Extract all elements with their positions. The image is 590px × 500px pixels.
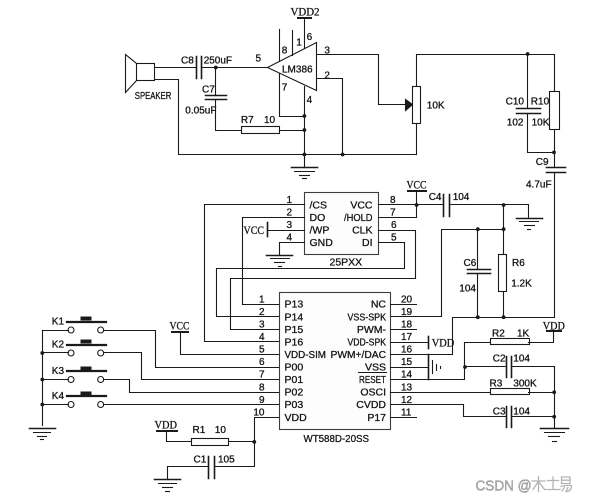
svg-text:VDD: VDD: [155, 419, 178, 431]
svg-text:13: 13: [401, 382, 413, 393]
ground G7 sideways: [429, 355, 441, 380]
op-amp U2 LM386 triangle: [268, 43, 317, 91]
node R6 top: [502, 227, 506, 231]
svg-text:R2: R2: [492, 329, 505, 340]
svg-text:R6: R6: [512, 258, 525, 269]
wire K2 right to P01: [104, 353, 279, 380]
wire pot bottom: [416, 124, 418, 155]
svg-text:K1: K1: [52, 317, 65, 328]
svg-text:P14: P14: [285, 311, 304, 323]
button K3: [67, 367, 106, 383]
svg-text:4: 4: [259, 332, 265, 343]
svg-text:8: 8: [282, 46, 288, 57]
svg-text:104: 104: [453, 192, 470, 203]
pot wiper arrow: [406, 100, 413, 111]
wire PWM+ net: [453, 318, 555, 355]
svg-text:16: 16: [401, 345, 413, 356]
svg-text:5: 5: [256, 54, 262, 65]
pin 6 wire from VDD2: [304, 19, 306, 49]
ground G4: [155, 480, 181, 492]
svg-text:7: 7: [282, 83, 288, 94]
wire 25PXX pin4 GND: [280, 243, 305, 255]
resistor R1: [192, 439, 229, 446]
node R6 bottom: [502, 315, 506, 319]
wire pot top: [417, 55, 555, 87]
svg-text:3: 3: [259, 319, 265, 330]
node RESET/R2/C2: [463, 365, 467, 369]
svg-text:15: 15: [401, 357, 413, 368]
svg-text:3: 3: [286, 220, 292, 231]
wire 25PXX pin1 /CS to P16: [205, 205, 305, 342]
svg-text:C9: C9: [536, 157, 549, 168]
svg-text:6: 6: [307, 32, 313, 43]
svg-text:10: 10: [215, 425, 227, 436]
watermark glyph shi: [546, 477, 560, 490]
svg-text:250uF: 250uF: [204, 56, 232, 67]
svg-text:104: 104: [513, 407, 530, 418]
svg-text:R3: R3: [490, 379, 503, 390]
svg-text:C8: C8: [181, 56, 194, 67]
wire K2 left: [43, 352, 69, 354]
svg-text:P15: P15: [285, 324, 304, 336]
svg-text:P16: P16: [285, 336, 304, 348]
svg-text:C2: C2: [493, 354, 506, 365]
svg-text:CVDD: CVDD: [356, 399, 386, 411]
node C9 top junction: [552, 151, 556, 155]
svg-text:RESET: RESET: [359, 374, 386, 386]
svg-text:4: 4: [307, 95, 313, 106]
wire junction down to C1: [215, 442, 255, 467]
capacitor C2: [465, 357, 555, 378]
capacitor C3: [507, 407, 555, 428]
svg-text:19: 19: [401, 307, 413, 318]
svg-text:1.2K: 1.2K: [511, 279, 532, 290]
svg-text:R10: R10: [531, 97, 550, 108]
watermark glyph yi: [561, 477, 572, 492]
wire C7 to R7: [216, 100, 242, 131]
svg-text:SPEAKER: SPEAKER: [135, 91, 172, 102]
pin 1 stub: [292, 31, 294, 56]
svg-text:8: 8: [390, 195, 396, 206]
wire K4 left: [43, 404, 69, 406]
wire K1 left: [43, 330, 69, 332]
VCC power bar mid: [172, 331, 188, 333]
capacitor C8: [197, 57, 202, 79]
svg-text:10: 10: [253, 407, 265, 418]
node C6 top: [476, 227, 480, 231]
IC U3 25PXX body: [305, 193, 379, 255]
svg-text:WT588D-20SS: WT588D-20SS: [304, 433, 370, 445]
wire pin20 NC stub: [391, 304, 417, 306]
capacitor C6: [468, 230, 491, 318]
node R1/C1 junction: [252, 440, 256, 444]
svg-text:17: 17: [401, 332, 413, 343]
svg-text:VCC: VCC: [350, 200, 373, 212]
node C3 right: [552, 415, 556, 419]
svg-text:5: 5: [391, 233, 397, 244]
svg-text:VDD: VDD: [543, 321, 565, 333]
resistor R6: [499, 230, 507, 318]
svg-text:4.7uF: 4.7uF: [526, 180, 552, 191]
wire pin2 to bottom wire: [317, 79, 343, 155]
wire pin3 output to pot wiper: [317, 55, 405, 105]
svg-text:CLK: CLK: [352, 225, 372, 237]
svg-text:10K: 10K: [427, 101, 445, 112]
IC U1 WT588D-20SS body: [280, 293, 391, 430]
wire pin12 CVDD to C3: [391, 405, 507, 417]
svg-text:C1: C1: [194, 455, 207, 466]
wire 25PXX pin6 CLK to P15: [231, 231, 416, 330]
svg-text:18: 18: [401, 319, 413, 330]
svg-text:DO: DO: [310, 212, 326, 224]
wire C1 left to ground: [168, 467, 209, 479]
svg-text:10K: 10K: [532, 118, 550, 129]
svg-text:P13: P13: [285, 299, 304, 311]
capacitor C4: [444, 195, 450, 217]
ground G3: [30, 429, 56, 440]
node C4 net branch: [502, 203, 506, 207]
svg-text:12: 12: [401, 395, 413, 406]
svg-text:VCC: VCC: [170, 321, 190, 333]
svg-text:9: 9: [259, 395, 265, 406]
wire pin16 PWM+/DAC: [391, 354, 453, 356]
resistor R7: [242, 127, 280, 134]
svg-text:OSCI: OSCI: [360, 387, 386, 399]
svg-text:2: 2: [286, 208, 292, 219]
svg-text:/HOLD: /HOLD: [344, 212, 373, 224]
node rail K4: [40, 403, 44, 407]
wire pin11 P17 stub: [391, 417, 417, 419]
wire K4 right to P03: [104, 404, 279, 406]
speaker LS1 symbol: [126, 55, 155, 93]
svg-text:VSS: VSS: [365, 362, 386, 374]
VCC power symbol top: [408, 191, 426, 205]
wire C8 to LM386 pin5: [202, 67, 268, 69]
capacitor C1: [209, 457, 215, 479]
svg-text:C4: C4: [429, 192, 442, 203]
ground G1: [292, 155, 318, 179]
wire pin13 OSCI to R3: [391, 392, 491, 394]
wire R1 right to VDD pin10: [229, 418, 279, 442]
svg-text:11: 11: [401, 407, 412, 418]
wire pin7 /HOLD tie to VCC: [379, 205, 417, 218]
node rail K2: [40, 351, 44, 355]
wire 25PXX pin2 DO to P13: [243, 218, 305, 305]
VDD power bar right: [547, 330, 561, 332]
pin 7 wire: [280, 74, 305, 117]
svg-text:P01: P01: [285, 374, 304, 386]
wire K1 right to P00: [104, 331, 279, 368]
svg-text:104: 104: [513, 354, 530, 365]
RESET overline: [359, 372, 387, 374]
node pin2 on bottom wire: [341, 153, 345, 157]
svg-text:2: 2: [324, 71, 330, 82]
svg-text:1: 1: [259, 294, 265, 305]
node R7/pin4: [303, 128, 307, 132]
node ground junction on bottom wire: [303, 153, 307, 157]
svg-text:6: 6: [391, 220, 397, 231]
wire 25PXX pin8 VCC to C4: [379, 204, 444, 206]
svg-text:/WP: /WP: [310, 225, 330, 237]
resistor R10: [550, 55, 560, 153]
svg-text:VDD: VDD: [285, 412, 308, 424]
resistor R3: [491, 389, 555, 395]
node C8/C7 junction: [214, 66, 218, 70]
wire to C10: [527, 55, 529, 109]
svg-text:4: 4: [286, 233, 292, 244]
svg-text:/CS: /CS: [310, 200, 328, 212]
svg-text:C10: C10: [506, 97, 525, 108]
svg-text:VDD2: VDD2: [291, 7, 320, 19]
wire K3 left: [43, 379, 69, 381]
svg-text:C6: C6: [464, 258, 477, 269]
svg-text:P00: P00: [285, 362, 304, 374]
wire C9 bottom down to PWM+ net: [554, 173, 556, 318]
capacitor C9: [547, 153, 566, 173]
node C10 top: [526, 52, 530, 56]
ground G2: [267, 256, 293, 267]
svg-text:102: 102: [507, 118, 524, 129]
svg-text:PWM+/DAC: PWM+/DAC: [331, 349, 387, 361]
wire speaker top to C8: [155, 67, 197, 69]
svg-text:VCC: VCC: [407, 180, 427, 192]
svg-text:7: 7: [259, 370, 265, 381]
button K4: [67, 392, 106, 408]
wire C10 bottom: [528, 114, 555, 153]
svg-text:2: 2: [259, 307, 265, 318]
watermark glyph mu: [532, 477, 545, 492]
svg-text:300K: 300K: [513, 379, 537, 390]
pin 8 stub: [279, 30, 281, 62]
svg-text:K3: K3: [52, 366, 65, 377]
svg-text:PWM-: PWM-: [357, 324, 387, 336]
svg-text:VDD-SPK: VDD-SPK: [348, 336, 387, 348]
svg-text:14: 14: [401, 370, 413, 381]
wire 25PXX pin5 DI to P14: [217, 243, 405, 317]
wire pin14 RESET to R2/C2 junction: [391, 343, 465, 380]
wire C4 right to ground: [450, 205, 529, 218]
svg-text:6: 6: [259, 357, 265, 368]
svg-text:K2: K2: [52, 340, 65, 351]
ground G6: [541, 429, 569, 442]
svg-text:VDD: VDD: [432, 338, 455, 350]
svg-text:20: 20: [401, 294, 413, 305]
wire VCC to VDD-SIM pin5: [181, 333, 279, 355]
svg-text:25PXX: 25PXX: [330, 257, 363, 269]
svg-text:GND: GND: [310, 237, 334, 249]
wire speaker bottom: [155, 80, 417, 155]
svg-text:C3: C3: [493, 407, 506, 418]
wire pin15 VSS to sideways ground: [391, 367, 429, 369]
svg-text:P03: P03: [285, 399, 304, 411]
svg-text:P02: P02: [285, 387, 304, 399]
VDD power bar bottom: [157, 431, 192, 442]
wire right ground rail: [554, 367, 556, 429]
svg-text:C7: C7: [202, 85, 215, 96]
svg-text:VCC: VCC: [244, 225, 265, 237]
svg-text:0.05uF: 0.05uF: [185, 106, 216, 117]
node VCC pin8: [415, 203, 419, 207]
svg-text:VSS-SPK: VSS-SPK: [348, 311, 387, 323]
node rail K3: [40, 378, 44, 382]
ground G5: [517, 219, 543, 230]
svg-text:10: 10: [264, 115, 276, 126]
svg-text:1: 1: [286, 195, 292, 206]
VDD2 power bar: [298, 17, 311, 19]
wire VSS-SPK net vertical and horizontal: [442, 205, 504, 317]
resistor R2: [465, 333, 554, 345]
svg-text:1: 1: [296, 38, 302, 49]
svg-text:8: 8: [259, 382, 265, 393]
svg-text:R1: R1: [193, 425, 206, 436]
svg-text:7: 7: [390, 208, 396, 219]
svg-text:CSDN @: CSDN @: [476, 478, 532, 495]
svg-text:K4: K4: [52, 391, 65, 402]
svg-text:1K: 1K: [517, 329, 530, 340]
svg-text:3: 3: [324, 46, 330, 57]
potentiometer RV1 body: [413, 87, 421, 124]
pin 4 wire: [304, 87, 306, 155]
wire R7 to pin4 line: [280, 130, 305, 132]
svg-text:105: 105: [218, 455, 235, 466]
svg-text:104: 104: [459, 284, 476, 295]
capacitor C10: [517, 109, 541, 114]
wire junction down to C7: [215, 68, 217, 96]
svg-text:VDD-SIM: VDD-SIM: [285, 349, 327, 361]
svg-text:P17: P17: [367, 412, 386, 424]
wire pin18 PWM- stub: [391, 329, 417, 331]
svg-text:R7: R7: [241, 115, 254, 126]
wire button ground rail: [42, 331, 44, 426]
svg-text:5: 5: [259, 345, 265, 356]
svg-text:LM386: LM386: [282, 65, 313, 76]
button K2: [67, 340, 106, 357]
svg-text:DI: DI: [362, 237, 373, 249]
node R3 right: [552, 390, 556, 394]
VDD tag at pin17 VDD-SPK: [391, 337, 429, 349]
node C6 bottom: [476, 315, 480, 319]
wire K3 right to P02: [104, 380, 279, 393]
svg-text:NC: NC: [371, 299, 387, 311]
wire pin19 VSS-SPK: [391, 316, 442, 318]
capacitor C7: [206, 96, 227, 100]
node pin7/pin4: [303, 114, 307, 118]
VCC tag at pin3 /WP: [268, 223, 305, 237]
button K1: [67, 317, 106, 334]
